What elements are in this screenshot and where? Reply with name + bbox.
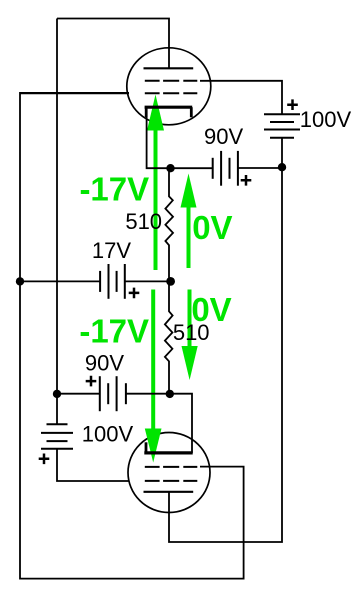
svg-text:510: 510 — [125, 209, 162, 234]
svg-text:0V: 0V — [191, 291, 231, 328]
svg-text:0V: 0V — [192, 209, 232, 246]
svg-text:90V: 90V — [85, 351, 124, 376]
svg-text:100V: 100V — [300, 107, 352, 132]
svg-text:100V: 100V — [82, 422, 134, 447]
svg-text:17V: 17V — [92, 238, 131, 263]
svg-text:-17V: -17V — [79, 170, 149, 207]
svg-text:-17V: -17V — [79, 313, 149, 350]
svg-text:90V: 90V — [204, 124, 243, 149]
